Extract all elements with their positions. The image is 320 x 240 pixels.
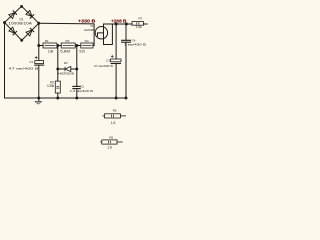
svg-text:R1: R1 [45,39,49,43]
svg-text:D2: D2 [64,61,68,65]
svg-text:R6: R6 [109,136,113,140]
svg-text:HER208: HER208 [58,71,74,75]
svg-text:1,8: 1,8 [107,146,112,150]
svg-text:5,6М: 5,6М [60,50,70,54]
svg-text:R7: R7 [138,17,142,21]
svg-text:47 мк/400 В: 47 мк/400 В [94,64,113,68]
svg-text:47 мк/400 В: 47 мк/400 В [9,67,39,71]
svg-text:R3: R3 [65,39,69,43]
svg-text:R5: R5 [113,109,117,113]
svg-text:1,6к: 1,6к [136,25,143,29]
svg-text:130k: 130k [47,84,55,88]
svg-text:C1: C1 [29,60,33,64]
svg-text:1,8: 1,8 [111,121,116,125]
svg-text:R4: R4 [85,39,89,43]
svg-text:C2: C2 [80,84,84,88]
svg-text:1000В/10А: 1000В/10А [8,21,33,25]
svg-text:C3: C3 [106,58,110,62]
svg-text:1 мк/400 В: 1 мк/400 В [124,42,146,46]
svg-text:510: 510 [79,50,85,54]
svg-text:1,5 мк/400 В: 1,5 мк/400 В [70,89,93,93]
svg-text:+330 В: +330 В [78,19,95,24]
svg-text:EH300B: EH300B [85,28,95,32]
svg-text:+268 В: +268 В [111,19,127,24]
svg-text:13k: 13k [48,50,54,54]
